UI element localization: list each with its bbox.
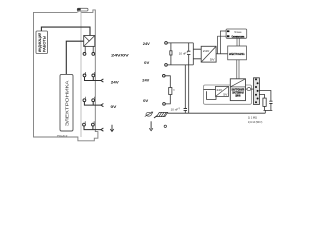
svg-text:0V: 0V	[111, 105, 118, 109]
svg-text:ЭЛЕКТРОНИКА: ЭЛЕКТРОНИКА	[64, 80, 69, 126]
svg-text:10 nF: 10 nF	[171, 108, 179, 112]
svg-text:РАБОТЫ: РАБОТЫ	[42, 36, 46, 53]
svg-text:5V: 5V	[210, 57, 215, 61]
svg-text:24V/0V: 24V/0V	[111, 54, 130, 58]
svg-text:24V: 24V	[217, 88, 223, 92]
svg-text:750-613: 750-613	[57, 134, 68, 138]
svg-text:24V: 24V	[143, 42, 151, 46]
svg-text:ШИНА: ШИНА	[235, 95, 240, 98]
svg-text:2) 10 nF (500 V): 2) 10 nF (500 V)	[248, 120, 263, 124]
svg-text:ЭЛЕКТРОНИКА: ЭЛЕКТРОНИКА	[229, 52, 245, 56]
svg-text:Системная шина: Системная шина	[232, 36, 245, 39]
svg-text:1) 1 MΩ: 1) 1 MΩ	[248, 115, 257, 119]
svg-text:Питание: Питание	[234, 31, 242, 34]
svg-text:5V: 5V	[223, 92, 227, 96]
svg-text:10 nF: 10 nF	[179, 52, 187, 56]
svg-text:24V: 24V	[142, 79, 150, 83]
svg-text:24V: 24V	[203, 49, 210, 53]
svg-text:24V: 24V	[111, 80, 120, 84]
